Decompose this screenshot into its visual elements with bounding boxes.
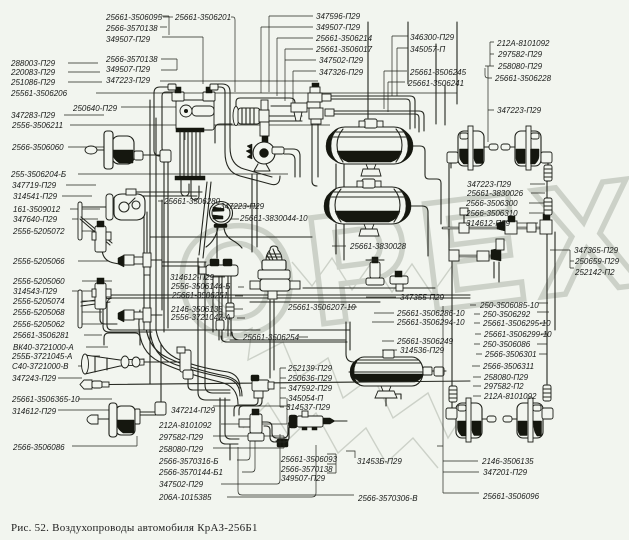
svg-text:25661-3506093: 25661-3506093 — [280, 455, 338, 464]
svg-text:255Б-3721045-А: 255Б-3721045-А — [11, 352, 72, 361]
horn solenoid valve — [144, 347, 193, 379]
svg-text:25661-3830026: 25661-3830026 — [466, 189, 524, 198]
wire: center vertical pair down — [270, 300, 274, 378]
svg-text:345057-П: 345057-П — [410, 45, 445, 54]
svg-text:314612-П29: 314612-П29 — [466, 219, 511, 228]
tee cluster 1 — [118, 253, 151, 275]
wire: compressor left U pipe — [154, 87, 170, 156]
lever 1 — [78, 202, 112, 245]
wire: leader lines left labels — [58, 63, 457, 446]
steering brake valve 161-3509012 — [106, 189, 145, 220]
svg-text:2566-3570144-Б1: 2566-3570144-Б1 — [158, 468, 223, 477]
svg-text:2566-3506300: 2566-3506300 — [465, 199, 518, 208]
svg-text:25661-3506281: 25661-3506281 — [12, 331, 69, 340]
svg-text:2566-3506060: 2566-3506060 — [11, 143, 64, 152]
svg-text:25661-3506280: 25661-3506280 — [163, 197, 221, 206]
svg-text:220083-П29: 220083-П29 — [10, 68, 56, 77]
compressor inlet fitting right — [203, 84, 218, 101]
wire: tank3 connections — [386, 371, 446, 406]
brake chamber bottom A — [446, 386, 496, 442]
svg-text:ВК40-3721000-А: ВК40-3721000-А — [13, 343, 74, 352]
svg-text:2566-3506310: 2566-3506310 — [465, 209, 518, 218]
svg-text:347223-П29: 347223-П29 — [497, 106, 542, 115]
wire: S pipe valve to lubricator — [262, 421, 293, 438]
svg-text:25661-3506251: 25661-3506251 — [171, 291, 228, 300]
svg-text:25661-3506299-10: 25661-3506299-10 — [483, 330, 552, 339]
wire: governor down pipes — [252, 174, 257, 252]
svg-text:314543-П29: 314543-П29 — [13, 287, 58, 296]
wire: unloader right pipes to tank bend — [331, 96, 415, 129]
brake chamber top B — [501, 126, 552, 170]
bottom chamber-left elbow up pipe — [160, 344, 162, 402]
bottom-center top valve — [234, 375, 274, 416]
svg-text:347365-П29: 347365-П29 — [574, 246, 619, 255]
svg-text:347596-П29: 347596-П29 — [316, 12, 361, 21]
air tank 2 — [324, 179, 411, 236]
svg-text:2566-3506311: 2566-3506311 — [482, 362, 534, 371]
svg-text:31453Б-П29: 31453Б-П29 — [357, 457, 402, 466]
svg-text:250640-П29: 250640-П29 — [72, 104, 118, 113]
wire: long center horizontal runs — [112, 288, 470, 302]
svg-text:212А-8101092: 212А-8101092 — [483, 392, 537, 401]
right mid manifold assembly — [443, 214, 552, 282]
wire: gauge stem to pipes — [216, 228, 218, 258]
brake chamber top A — [447, 126, 498, 170]
svg-text:347243-П29: 347243-П29 — [12, 374, 57, 383]
hand valve 2 — [92, 278, 111, 309]
air lubricator — [289, 411, 347, 430]
svg-text:2556-3721047-А: 2556-3721047-А — [170, 313, 231, 322]
wire: bundle from manifold down to horizontal — [221, 332, 347, 342]
svg-text:347283-П29: 347283-П29 — [11, 111, 56, 120]
wire: pipes left of tanks down — [336, 164, 344, 260]
svg-text:347214-П29: 347214-П29 — [171, 406, 216, 415]
svg-text:349507-П29: 349507-П29 — [106, 35, 151, 44]
svg-text:251086-П29: 251086-П29 — [10, 78, 56, 87]
compressor U1 — [175, 100, 214, 200]
wire: S pipes lower-left — [139, 310, 238, 404]
wire: compressor right S pipe — [214, 87, 280, 185]
svg-text:252139-П29: 252139-П29 — [287, 364, 333, 373]
svg-text:2556-3506144-Б: 2556-3506144-Б — [170, 282, 230, 291]
wire: leader lines center labels — [298, 246, 397, 350]
svg-text:25661-3506017: 25661-3506017 — [315, 45, 373, 54]
svg-text:347201-П29: 347201-П29 — [483, 468, 528, 477]
svg-text:347223-П29: 347223-П29 — [467, 180, 512, 189]
svg-text:Рис. 52. Воздухопроводы автомо: Рис. 52. Воздухопроводы автомобиля КрАЗ-… — [11, 522, 258, 534]
svg-text:206А-1015385: 206А-1015385 — [158, 493, 212, 502]
watermark OREX — [166, 144, 629, 374]
svg-text:258080-П29: 258080-П29 — [158, 445, 204, 454]
svg-text:2566-3570138: 2566-3570138 — [280, 465, 333, 474]
svg-text:25661-3830044-10: 25661-3830044-10 — [239, 214, 308, 223]
svg-text:345054-П: 345054-П — [288, 394, 323, 403]
svg-text:25661-3506254: 25661-3506254 — [242, 333, 300, 342]
valve with handle center-right — [366, 257, 384, 285]
wire: gauge label leaders — [158, 201, 259, 219]
unloader valve top-center — [271, 83, 334, 124]
wire: right area verticals — [449, 164, 555, 408]
svg-text:347223-П29: 347223-П29 — [220, 202, 265, 211]
svg-text:314537-П29: 314537-П29 — [286, 403, 331, 412]
svg-text:297582-П29: 297582-П29 — [497, 50, 543, 59]
svg-text:347502-П29: 347502-П29 — [319, 56, 364, 65]
svg-text:2566-3506301: 2566-3506301 — [484, 350, 537, 359]
brake chamber (front left) — [85, 131, 171, 332]
wire: regulator to unloader — [236, 98, 295, 111]
svg-text:297582-П29: 297582-П29 — [158, 433, 204, 442]
wire: rounded U over horn — [104, 333, 140, 345]
svg-text:25661-3506201: 25661-3506201 — [174, 13, 231, 22]
compressor inlet fitting left — [168, 84, 184, 101]
label bracket right — [550, 250, 574, 268]
svg-text:314541-П29: 314541-П29 — [13, 192, 58, 201]
tank3 left elbow pipe — [346, 322, 354, 362]
brake valve (two-section) — [250, 246, 300, 299]
svg-text:347640-П29: 347640-П29 — [13, 215, 58, 224]
hand valve 1 — [92, 221, 111, 252]
svg-text:25661-3506241: 25661-3506241 — [407, 79, 464, 88]
bottom-center vertical valve — [239, 409, 264, 441]
svg-text:25661-3506294-10: 25661-3506294-10 — [396, 318, 465, 327]
svg-text:347592-П29: 347592-П29 — [288, 384, 333, 393]
wire: big rounded corner pipes bottom-left — [198, 258, 230, 400]
watermark zigzag — [213, 258, 467, 468]
pressure regulator — [233, 100, 269, 142]
svg-text:25661-3506245: 25661-3506245 — [409, 68, 467, 77]
svg-text:2556-5205074: 2556-5205074 — [12, 297, 65, 306]
svg-text:258080-П29: 258080-П29 — [483, 373, 529, 382]
svg-text:250636-П29: 250636-П29 — [287, 374, 333, 383]
wire: valve interconnects left column — [100, 260, 162, 324]
svg-text:288003-П29: 288003-П29 — [10, 59, 56, 68]
wire: U pipe descending left of cluster — [220, 398, 239, 444]
tee valve center-right 2 — [390, 271, 408, 291]
svg-text:349507-П29: 349507-П29 — [316, 23, 361, 32]
wire: horn elbow to right — [188, 379, 230, 390]
air horn — [82, 354, 145, 374]
svg-text:314612-П29: 314612-П29 — [170, 273, 215, 282]
wire: top leader verticals — [163, 16, 173, 18]
wire: right mid stack leaders — [510, 184, 547, 223]
svg-text:255-3506204-Б: 255-3506204-Б — [10, 170, 66, 179]
svg-text:349507-П29: 349507-П29 — [106, 65, 151, 74]
svg-text:347223-П29: 347223-П29 — [106, 76, 151, 85]
svg-text:25661-3506207-10: 25661-3506207-10 — [287, 303, 356, 312]
tow hose connector + long rod — [80, 380, 470, 389]
svg-text:2556-5205068: 2556-5205068 — [12, 308, 65, 317]
pressure gauge — [206, 202, 242, 249]
svg-text:2556-5205062: 2556-5205062 — [12, 320, 65, 329]
svg-text:25661-3506095: 25661-3506095 — [105, 13, 163, 22]
svg-text:347355-П29: 347355-П29 — [400, 293, 445, 302]
wire: 252139 stack leaders — [280, 368, 286, 407]
governor pump — [246, 142, 284, 171]
svg-text:25661-3506365-10: 25661-3506365-10 — [11, 395, 80, 404]
svg-text:25661-3830028: 25661-3830028 — [349, 242, 407, 251]
wire: governor right pipes — [284, 149, 300, 177]
wire: right top chamber elbows up-pipes — [451, 162, 548, 168]
tee cluster 2 — [118, 308, 151, 330]
svg-text:252142-П2: 252142-П2 — [574, 268, 615, 277]
svg-text:2566-3570306-В: 2566-3570306-В — [357, 494, 418, 503]
svg-text:212А-8101092: 212А-8101092 — [158, 421, 212, 430]
svg-text:250-3506086: 250-3506086 — [482, 340, 531, 349]
svg-text:314536-П29: 314536-П29 — [400, 346, 445, 355]
svg-text:25661-3506214: 25661-3506214 — [315, 34, 373, 43]
svg-text:258080-П29: 258080-П29 — [497, 62, 543, 71]
wire: leader lines top labels — [160, 16, 235, 92]
svg-text:25661-3506249: 25661-3506249 — [396, 337, 454, 346]
svg-text:347719-П29: 347719-П29 — [12, 181, 57, 190]
svg-text:250-3506085-10: 250-3506085-10 — [479, 301, 539, 310]
svg-text:2566-3570138: 2566-3570138 — [105, 24, 158, 33]
svg-text:2146-3506135: 2146-3506135 — [481, 457, 534, 466]
svg-text:250-3506292: 250-3506292 — [482, 310, 531, 319]
wire: bottom chamber pipes join — [458, 412, 542, 414]
svg-text:25661-3506228: 25661-3506228 — [494, 74, 552, 83]
wire: tank1 right elbow going down — [411, 146, 441, 224]
wire: left long verticals from compressor — [144, 100, 162, 384]
svg-text:212А-8101092: 212А-8101092 — [496, 39, 550, 48]
svg-text:25661-3506096: 25661-3506096 — [482, 492, 540, 501]
manifold with two caps — [199, 259, 238, 340]
svg-text:347326-П29: 347326-П29 — [319, 68, 364, 77]
svg-text:297582-П2: 297582-П2 — [483, 382, 524, 391]
svg-text:347502-П29: 347502-П29 — [159, 480, 204, 489]
svg-text:2556-3506211: 2556-3506211 — [11, 121, 63, 130]
svg-text:2566-3506086: 2566-3506086 — [12, 443, 65, 452]
wire: tee up stub — [463, 214, 465, 223]
svg-text:250659-П29: 250659-П29 — [574, 257, 620, 266]
svg-text:25561-3506206: 25561-3506206 — [10, 89, 68, 98]
svg-text:314612-П29: 314612-П29 — [12, 407, 57, 416]
air tank 1 — [326, 119, 413, 176]
wire: leader lines right labels — [443, 303, 549, 446]
wire: compressor down verticals — [199, 182, 211, 258]
svg-text:2556-5205060: 2556-5205060 — [12, 277, 65, 286]
lever 2 — [78, 290, 112, 328]
svg-text:2556-5205066: 2556-5205066 — [12, 257, 65, 266]
wire: mid-left stack leaders — [213, 277, 245, 318]
svg-text:349507-П29: 349507-П29 — [281, 474, 326, 483]
hose coupling right vertical mid — [544, 198, 552, 215]
svg-text:2566-3570316-Б: 2566-3570316-Б — [158, 457, 218, 466]
wire: housing outlet pipes — [82, 192, 202, 207]
svg-text:25661-3506295-10: 25661-3506295-10 — [482, 319, 551, 328]
svg-text:С40-3721000-В: С40-3721000-В — [12, 362, 69, 371]
wire: unloader down pair to tanks — [312, 111, 318, 186]
svg-text:2566-3570138: 2566-3570138 — [105, 55, 158, 64]
svg-text:161-3509012: 161-3509012 — [13, 205, 61, 214]
wire: lower horizontal runs — [213, 405, 290, 407]
air tank 3 (bottom) — [349, 350, 432, 399]
brake chamber bottom B — [503, 385, 553, 442]
svg-text:346300-П29: 346300-П29 — [410, 33, 455, 42]
svg-text:2556-5205072: 2556-5205072 — [12, 227, 65, 236]
brake chamber lower-left — [87, 402, 166, 437]
svg-text:25661-3506286-10: 25661-3506286-10 — [396, 309, 465, 318]
wire: left horizontal pipes y262 — [162, 262, 206, 266]
wire: bottom label leaders — [213, 398, 316, 497]
hose coupling right vertical upper — [544, 165, 552, 181]
